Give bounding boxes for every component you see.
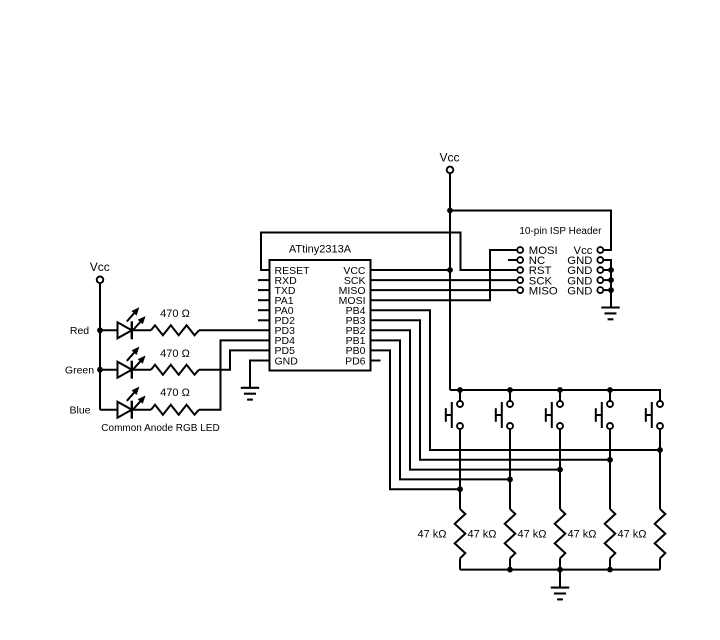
pin stub PD6 [371,360,381,362]
wire IC VCC to Vcc rail [371,269,451,271]
resistor 470 ohm (green) [151,365,199,375]
wire IC GND to ground [250,361,270,388]
wire Vcc vertical rail [449,174,451,390]
pin stub TXD [258,289,270,291]
node GND3 [608,277,614,283]
resistor 47k R1 [455,509,466,558]
wire PB3 to button 4 [371,320,611,460]
resistor 47k R2 [505,509,516,558]
switch S3 [546,401,563,429]
IC U1 ATtiny2313A box [270,260,371,371]
ISP pin Vcc [597,247,603,253]
pin stub RXD [258,279,270,281]
node PB4 button5 [657,447,663,453]
pin stub PA1 [258,299,270,301]
wire button2 down [509,430,511,510]
ISP pin GND1 [597,257,603,263]
svg-text:Red: Red [70,325,89,337]
wire red anode [100,329,118,331]
node PB2 button3 [557,467,563,473]
wire button3 top stub [559,390,561,401]
wire GND4 stub [603,289,611,291]
power Vcc (LED rail) [90,260,110,283]
wire R3 to rail [559,558,561,569]
wire R1 to rail [459,558,461,569]
node PB0 button1 [457,486,463,492]
wire MOSI [371,250,518,300]
wire button3 down [559,430,561,510]
node rail R2 [507,567,513,573]
svg-text:47 kΩ: 47 kΩ [417,529,446,541]
switch S2 [496,401,513,429]
wire MISO [371,289,518,291]
svg-text:Vcc: Vcc [90,260,110,274]
ISP pin RST [517,267,523,273]
resistor 470 ohm (red) [151,325,199,335]
ground (ISP) [601,308,619,320]
wire PB4 to button 5 [371,310,661,450]
svg-text:Vcc: Vcc [439,151,459,165]
ISP pin MOSI [517,247,523,253]
svg-text:470 Ω: 470 Ω [160,348,190,360]
wire blue anode [100,409,118,411]
node red anode junction [97,327,103,333]
power Vcc (top) [439,151,459,174]
wire red led to resistor [132,329,151,331]
node rail R4 [607,567,613,573]
wire green anode [100,369,118,371]
node rail button 1 [457,387,463,393]
wire green resistor to PD5 [199,350,270,369]
wire red resistor to PD3 [199,329,270,331]
pin stub PD2 [258,319,270,321]
svg-text:MISO: MISO [529,285,558,297]
node rail button 2 [507,387,513,393]
wire Vcc to ISP Vcc pin [450,211,611,251]
wire RESET to ISP RST [261,233,517,271]
node rail R3 [557,567,563,573]
resistor 47k R4 [605,509,616,558]
svg-text:47 kΩ: 47 kΩ [467,529,496,541]
switch S1 [446,401,463,429]
ground (bottom) [551,588,569,600]
wire button2 top stub [509,390,511,401]
wire ground stem bottom [559,570,561,588]
svg-text:47 kΩ: 47 kΩ [567,529,596,541]
node GND2 [608,267,614,273]
resistor 47k R3 [555,509,566,558]
svg-text:47 kΩ: 47 kΩ [617,529,646,541]
node Vcc to ISP branch [447,208,453,214]
pin stub PA0 [258,309,270,311]
wire GND3 stub [603,279,611,281]
switch S4 [596,401,613,429]
ISP pin GND3 [597,277,603,283]
wire Vcc rail down left [99,284,101,410]
node rail button 3 [557,387,563,393]
wire button1 down [459,430,461,510]
wire PB2 to button 3 [371,330,561,469]
ISP pin GND4 [597,287,603,293]
node PB1 button2 [507,477,513,483]
pin labels right [339,265,366,368]
wire GND2 stub [603,269,611,271]
ground (IC) [241,388,259,400]
svg-text:47 kΩ: 47 kΩ [517,529,546,541]
svg-text:470 Ω: 470 Ω [160,387,190,399]
svg-text:Common Anode RGB LED: Common Anode RGB LED [101,423,219,434]
wire button top rail [450,390,660,401]
LED red [118,309,145,340]
svg-text:10-pin ISP Header: 10-pin ISP Header [519,226,602,237]
node PB3 button4 [607,457,613,463]
pin labels left [275,265,311,368]
node rail button 4 [607,387,613,393]
switch S5 [646,401,663,429]
wire R5 to rail [659,558,661,569]
svg-text:GND: GND [275,355,299,367]
svg-text:Green: Green [65,364,94,376]
wire PB1 to button 2 [371,340,511,479]
ISP pin NC [517,257,523,263]
wire NC stub [508,259,517,261]
wire PB0 to button 1 [371,350,461,489]
wire green led to resistor [132,369,151,371]
node Vcc to IC VCC [447,267,453,273]
svg-text:PD6: PD6 [345,355,366,367]
wire R4 to rail [609,558,611,569]
wire R2 to rail [509,558,511,569]
resistor 470 ohm (blue) [151,405,199,415]
node GND4 [608,287,614,293]
wire ISP GND bus [603,260,611,308]
wire SCK [371,279,518,281]
svg-text:GND: GND [567,285,592,297]
wire button5 down [659,430,661,510]
wire button1 top stub [459,390,461,401]
LED blue [118,388,145,419]
LED green [118,348,145,379]
node green anode junction [97,367,103,373]
ISP pin MISO [517,287,523,293]
svg-text:470 Ω: 470 Ω [160,308,190,320]
wire blue led to resistor [132,409,151,411]
ISP pin SCK [517,277,523,283]
svg-text:ATtiny2313A: ATtiny2313A [289,244,352,256]
wire bottom rail [460,569,660,571]
wire button4 top stub [609,390,611,401]
svg-text:Blue: Blue [69,404,90,416]
wire button4 down [609,430,611,510]
wire blue resistor to PD4 [199,340,270,409]
resistor 47k R5 [655,509,666,558]
ISP pin GND2 [597,267,603,273]
